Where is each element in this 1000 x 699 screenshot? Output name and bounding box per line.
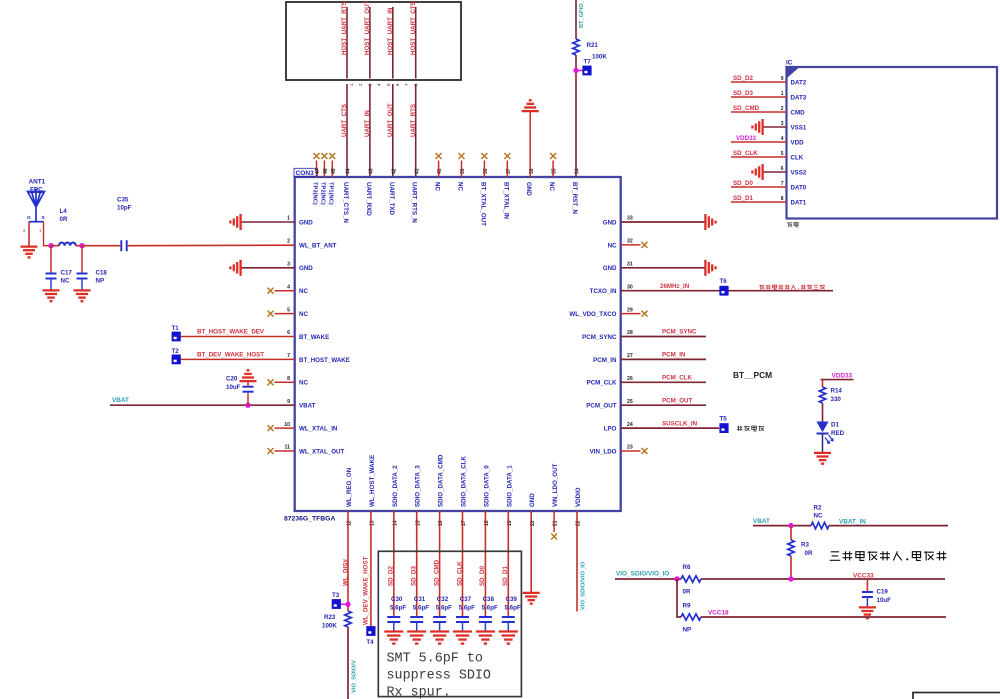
svg-text:NP: NP xyxy=(96,278,105,285)
svg-text:T4: T4 xyxy=(366,639,374,646)
wire SUSCLK_IN net xyxy=(621,427,719,429)
testpoint T1 xyxy=(172,332,181,342)
no-connect x pin 46 xyxy=(321,153,327,159)
svg-text:UART_IN: UART_IN xyxy=(364,110,371,137)
svg-text:UART_RTS: UART_RTS xyxy=(410,104,417,137)
pin 39 stub xyxy=(461,161,463,178)
wire R2 to VBAT_IN xyxy=(829,525,948,527)
svg-text:C20: C20 xyxy=(226,376,238,383)
svg-text:30: 30 xyxy=(627,284,633,290)
svg-text:SDIO_DATA_CLK: SDIO_DATA_CLK xyxy=(461,455,468,507)
wire D1 to ground xyxy=(822,434,824,453)
svg-text:2: 2 xyxy=(23,228,26,233)
capacitor C20 xyxy=(247,393,249,406)
svg-text:UART_OUT: UART_OUT xyxy=(387,103,394,137)
svg-text:UART_CTS_N: UART_CTS_N xyxy=(342,182,349,223)
svg-text:UART_CTS: UART_CTS xyxy=(341,104,348,137)
svg-text:SD_D0: SD_D0 xyxy=(733,180,754,187)
inductor L4 xyxy=(59,243,76,246)
svg-text:PCM_CLK: PCM_CLK xyxy=(587,380,617,387)
svg-text:SUSCLK_IN: SUSCLK_IN xyxy=(662,420,698,427)
svg-text:10uF: 10uF xyxy=(877,597,892,604)
wire net SD_CLK (pin 17 down) xyxy=(462,511,464,617)
ground at C30 xyxy=(384,630,403,632)
wire VBAT rail xyxy=(753,525,811,527)
svg-text:BT_HOST_WAKE: BT_HOST_WAKE xyxy=(299,357,350,364)
testpoint T6 xyxy=(719,286,728,296)
wire UART_OUT from J2 to CON3 pin 42 xyxy=(392,84,394,177)
svg-text:5.6pF: 5.6pF xyxy=(459,605,475,612)
svg-text:TP1(NC): TP1(NC) xyxy=(328,182,334,205)
svg-text:SD_D1: SD_D1 xyxy=(733,195,754,202)
svg-text:BT__PCM: BT__PCM xyxy=(733,370,772,380)
wire BT_RST_N net (pin 34 up) xyxy=(575,55,577,177)
svg-text:WL_DEV_WAKE_HOST: WL_DEV_WAKE_HOST xyxy=(363,556,370,625)
svg-text:SD_D3: SD_D3 xyxy=(411,565,418,586)
svg-text:NC: NC xyxy=(608,242,617,249)
svg-text:1: 1 xyxy=(349,83,354,86)
svg-text:TP2(NC): TP2(NC) xyxy=(320,182,326,205)
svg-text:42: 42 xyxy=(391,168,397,174)
ground at C38 xyxy=(476,630,495,632)
svg-text:BT_WAKE: BT_WAKE xyxy=(299,334,329,341)
node junction VIO/R9 xyxy=(674,576,679,581)
svg-text:5.6pF: 5.6pF xyxy=(390,605,406,612)
ground (left) pin 1 xyxy=(239,214,241,230)
svg-text:4: 4 xyxy=(377,83,382,86)
wire net SD_D0 (pin 18 down) xyxy=(484,511,486,617)
wire VCC33 to C19 xyxy=(866,579,868,592)
pin 10 stub xyxy=(275,427,295,429)
no-connect x pin 32 xyxy=(642,242,648,248)
svg-text:VSS1: VSS1 xyxy=(791,124,807,131)
svg-text:VDD33: VDD33 xyxy=(736,135,757,142)
pin 33 GND wire xyxy=(621,221,705,223)
svg-text:43: 43 xyxy=(369,168,375,174)
svg-text:L4: L4 xyxy=(60,208,68,215)
svg-text:5: 5 xyxy=(287,307,290,313)
svg-text:VIO_SDIO/V: VIO_SDIO/V xyxy=(352,660,358,693)
svg-text:PCM_SYNC: PCM_SYNC xyxy=(582,334,617,341)
svg-text:Rx spur.: Rx spur. xyxy=(387,686,451,699)
svg-text:BT_XTAL_OUT: BT_XTAL_OUT xyxy=(479,182,486,226)
svg-text:S: S xyxy=(42,215,46,221)
svg-text:ANT1: ANT1 xyxy=(29,179,46,186)
svg-text:7: 7 xyxy=(287,353,290,359)
wire net SD_D3 (pin 15 down) xyxy=(416,511,418,617)
svg-text:LPO: LPO xyxy=(604,426,617,433)
ground at D1 xyxy=(814,452,831,454)
svg-text:2: 2 xyxy=(287,239,290,245)
svg-text:HOST_UART_CTS: HOST_UART_CTS xyxy=(410,1,417,55)
svg-text:GND: GND xyxy=(525,182,532,196)
node junction at T7 xyxy=(573,68,578,73)
svg-text:BT_GPIO_IO: BT_GPIO_IO xyxy=(579,0,585,28)
no-connect x pin 39 xyxy=(459,153,465,159)
svg-text:VIN_LDO_OUT: VIN_LDO_OUT xyxy=(552,463,559,507)
no-connect x pin 11 xyxy=(268,448,274,454)
corner mark xyxy=(788,68,799,78)
resistor R21 xyxy=(573,39,579,55)
wire R23 down to VIO rail xyxy=(347,627,349,699)
svg-text:PCM_OUT: PCM_OUT xyxy=(662,397,692,404)
svg-text:10uF: 10uF xyxy=(226,384,241,391)
pin 32 stub xyxy=(621,244,641,246)
pin 29 stub xyxy=(621,313,641,315)
svg-text:9: 9 xyxy=(287,399,290,405)
pin 21 stub xyxy=(553,511,555,532)
svg-text:SDIO_DATA_2: SDIO_DATA_2 xyxy=(392,465,399,507)
wire node B to C35 xyxy=(82,245,120,247)
wire net BT_DEV_WAKE_HOST xyxy=(181,358,295,360)
svg-text:SDIO_DATA_CMD: SDIO_DATA_CMD xyxy=(438,454,445,507)
capacitor C17 xyxy=(50,246,52,274)
svg-text:32: 32 xyxy=(627,239,633,245)
pin 5 stub xyxy=(275,313,295,315)
svg-text:WL_HOST_WAKE: WL_HOST_WAKE xyxy=(369,455,376,507)
svg-text:RED: RED xyxy=(831,430,845,437)
svg-text:R14: R14 xyxy=(831,388,843,395)
pin 46 TP2(NC) stub xyxy=(323,161,325,178)
wire VIO rail left xyxy=(615,578,681,580)
wire VBAT to R3 xyxy=(790,526,792,540)
title block corner xyxy=(913,693,1000,699)
no-connect x pin 29 xyxy=(642,311,648,317)
svg-text:44: 44 xyxy=(346,168,352,174)
svg-text:IC: IC xyxy=(786,60,793,67)
pin 3 GND stub xyxy=(242,267,295,269)
svg-text:SD_CMD: SD_CMD xyxy=(733,105,760,112)
svg-text:24: 24 xyxy=(627,422,633,428)
svg-text:100K: 100K xyxy=(322,623,337,630)
svg-text:31: 31 xyxy=(627,262,633,268)
wire C35 to pin 2 WL_BT_ANT xyxy=(128,244,295,247)
node junction A (ant/L4/C17) xyxy=(48,243,53,248)
svg-text:SDIO_DATA_1: SDIO_DATA_1 xyxy=(506,465,513,507)
svg-text:NC: NC xyxy=(61,278,70,285)
svg-text:HOST_UART_IN: HOST_UART_IN xyxy=(387,7,394,55)
svg-text:46: 46 xyxy=(323,168,329,174)
svg-text:NP: NP xyxy=(683,627,692,634)
svg-text:UART_TXD: UART_TXD xyxy=(388,182,395,216)
svg-text:T1: T1 xyxy=(172,325,180,332)
wire net PCM_IN xyxy=(621,358,706,360)
wire J2 pin to net HOST_UART_CTS xyxy=(415,7,417,79)
pin 31 GND wire xyxy=(621,267,705,269)
wire to T7 xyxy=(576,70,583,72)
svg-text:SD_D0: SD_D0 xyxy=(479,565,486,586)
no-connect x pin 10 xyxy=(268,425,274,431)
svg-text:SMT 5.6pF to: SMT 5.6pF to xyxy=(387,652,483,667)
svg-text:PCM_SYNC: PCM_SYNC xyxy=(662,329,697,336)
wire UART_RTS from J2 to CON3 pin 41 xyxy=(415,84,417,177)
svg-text:T2: T2 xyxy=(172,348,180,355)
svg-text:UART_RTS_N: UART_RTS_N xyxy=(411,182,418,223)
svg-text:PCM_IN: PCM_IN xyxy=(662,352,686,359)
resistor R3 xyxy=(788,540,794,556)
pin 38 stub xyxy=(483,161,485,178)
svg-text:CLK: CLK xyxy=(791,154,804,161)
svg-text:NC: NC xyxy=(457,182,464,191)
no-connect x pin 21 xyxy=(551,534,557,540)
label card socket xyxy=(787,222,792,227)
svg-text:5: 5 xyxy=(386,83,391,86)
annotation: three voltage inputs, selectable xyxy=(830,552,840,560)
svg-text:suppress SDIO: suppress SDIO xyxy=(387,669,491,684)
wire VBAT to pin 9 xyxy=(110,404,295,406)
no-connect x pin 23 xyxy=(642,448,648,454)
svg-text:C38: C38 xyxy=(483,596,495,603)
no-connect x pin 8 xyxy=(268,379,274,385)
svg-text:VBAT: VBAT xyxy=(753,518,770,525)
svg-text:DAT1: DAT1 xyxy=(791,199,807,206)
svg-text:DAT3: DAT3 xyxy=(791,94,807,101)
svg-text:7: 7 xyxy=(404,83,409,86)
svg-text:GND: GND xyxy=(299,219,313,226)
svg-text:BT_HOST_WAKE_DEV: BT_HOST_WAKE_DEV xyxy=(197,329,265,336)
svg-text:C39: C39 xyxy=(506,596,518,603)
wire UART_IN from J2 to CON3 pin 43 xyxy=(369,84,371,177)
ground at C37 xyxy=(453,630,472,632)
ground (right) pin 33 xyxy=(704,214,706,230)
svg-text:26: 26 xyxy=(627,376,633,382)
svg-text:11: 11 xyxy=(285,445,291,451)
pin 23 stub xyxy=(621,450,641,452)
testpoint T4 xyxy=(366,626,375,636)
svg-text:R6: R6 xyxy=(683,564,691,571)
svg-text:SD_CLK: SD_CLK xyxy=(456,561,463,586)
svg-text:28: 28 xyxy=(627,330,633,336)
svg-text:VSS2: VSS2 xyxy=(791,169,807,176)
svg-text:33: 33 xyxy=(627,216,633,222)
svg-text:25: 25 xyxy=(627,399,633,405)
annotation: this pin floating xyxy=(737,426,743,431)
svg-text:5.6pF: 5.6pF xyxy=(482,605,498,612)
wire net SD_CMD (pin 16 down) xyxy=(439,511,441,617)
svg-text:TP3(NC): TP3(NC) xyxy=(312,182,318,205)
svg-text:D1: D1 xyxy=(831,422,839,429)
capacitor C19 xyxy=(862,591,873,593)
no-connect x pin 35 xyxy=(550,153,556,159)
svg-text:WL_REG_ON: WL_REG_ON xyxy=(346,467,353,507)
wire WL_DIS# net (pin 12 down) xyxy=(347,511,349,611)
no-connect x pin 4 xyxy=(268,288,274,294)
svg-text:CMD: CMD xyxy=(791,109,806,116)
svg-text:C18: C18 xyxy=(96,270,108,277)
node junction B (L4/C18/C35) xyxy=(79,243,84,248)
pin 4 stub xyxy=(275,290,295,292)
wire J2 pin to net HOST_UART_IN xyxy=(392,7,394,79)
wire net PCM_CLK xyxy=(621,381,706,383)
connector J2 HOST UART box xyxy=(286,2,461,80)
svg-text:27: 27 xyxy=(627,353,633,359)
ground at C31 xyxy=(407,630,426,632)
svg-text:VDD: VDD xyxy=(791,139,805,146)
pin 1 GND stub xyxy=(242,221,295,223)
wire WL_DEV_WAKE_HOST net (pin 13 down) xyxy=(370,511,372,626)
svg-text:R9: R9 xyxy=(683,603,691,610)
wire R3 to VIO rail xyxy=(790,556,792,579)
pin 11 stub xyxy=(275,450,295,452)
resistor R6 xyxy=(681,576,701,582)
svg-text:WL_BT_ANT: WL_BT_ANT xyxy=(299,242,337,249)
antenna feed bar xyxy=(29,221,44,223)
svg-text:SD_CLK: SD_CLK xyxy=(733,150,758,157)
svg-text:GND: GND xyxy=(603,265,617,272)
ground at C19 xyxy=(859,606,876,608)
svg-text:87236G_TFBGA: 87236G_TFBGA xyxy=(284,516,335,523)
svg-text:PCM_OUT: PCM_OUT xyxy=(586,403,616,410)
wire J2 pin to net HOST_UART_RTS xyxy=(346,7,348,79)
svg-text:10: 10 xyxy=(284,422,290,428)
ground at C17 xyxy=(43,289,60,291)
svg-text:330: 330 xyxy=(831,396,842,403)
svg-text:4: 4 xyxy=(287,284,290,290)
svg-text:NC: NC xyxy=(299,288,308,295)
ground (up) pin 36 xyxy=(522,110,539,112)
svg-text:VIN_LDO: VIN_LDO xyxy=(590,448,617,455)
svg-text:WL_VDO_TXCO: WL_VDO_TXCO xyxy=(569,311,616,318)
svg-text:SDIO_DATA_3: SDIO_DATA_3 xyxy=(415,465,422,507)
svg-text:C17: C17 xyxy=(61,270,73,277)
no-connect x pin 38 xyxy=(481,153,487,159)
ground (up) at C20 xyxy=(240,380,257,382)
svg-text:BT_DEV_WAKE_HOST: BT_DEV_WAKE_HOST xyxy=(197,352,264,359)
svg-text:23: 23 xyxy=(627,445,633,451)
svg-text:0R: 0R xyxy=(60,216,68,223)
svg-text:G: G xyxy=(27,215,31,221)
node junction VBAT/R3 xyxy=(788,523,793,528)
pin 45 TP1(NC) stub xyxy=(331,161,333,178)
svg-text:T7: T7 xyxy=(584,59,592,66)
note box SMT 5.6pF xyxy=(378,551,521,696)
wire 26MHz_IN net xyxy=(621,290,833,292)
ground at C39 xyxy=(499,630,518,632)
svg-text:HOST_UART_RTS: HOST_UART_RTS xyxy=(341,1,348,55)
svg-text:T5: T5 xyxy=(720,416,728,423)
svg-text:VBAT: VBAT xyxy=(112,397,129,404)
svg-text:45: 45 xyxy=(331,168,337,174)
svg-text:GND: GND xyxy=(299,265,313,272)
svg-text:WL_XTAL_IN: WL_XTAL_IN xyxy=(299,426,338,433)
wire net PCM_OUT xyxy=(621,404,706,406)
wire net SD_D1 (pin 19 down) xyxy=(507,511,509,617)
svg-text:HOST_UART_OUT: HOST_UART_OUT xyxy=(364,0,371,55)
svg-text:6: 6 xyxy=(395,83,400,86)
testpoint T2 xyxy=(172,355,181,365)
wire antenna signal leg xyxy=(44,222,52,246)
node junction VIO/R3 xyxy=(788,576,793,581)
capacitor C35 xyxy=(120,240,122,251)
svg-text:NC: NC xyxy=(814,513,823,520)
pin 40 stub xyxy=(438,161,440,178)
svg-text:100K: 100K xyxy=(592,54,607,61)
ground at C32 xyxy=(430,630,449,632)
svg-text:VCC18: VCC18 xyxy=(708,610,729,617)
wire antenna ground leg xyxy=(28,222,30,246)
svg-text:WL_XTAL_OUT: WL_XTAL_OUT xyxy=(299,448,344,455)
svg-text:VDD33: VDD33 xyxy=(832,373,853,380)
svg-text:DAT2: DAT2 xyxy=(791,79,807,86)
wire pin 20 GND down xyxy=(530,511,532,592)
pin 35 stub xyxy=(552,161,554,178)
svg-text:BT_RST_N: BT_RST_N xyxy=(571,182,578,215)
svg-text:5.6pF: 5.6pF xyxy=(436,605,452,612)
testpoint T7 xyxy=(582,66,591,76)
svg-text:1: 1 xyxy=(287,216,290,222)
testpoint T3 xyxy=(332,599,341,609)
svg-text:DAT0: DAT0 xyxy=(791,184,807,191)
wire net BT_HOST_WAKE_DEV xyxy=(181,336,295,338)
no-connect x pin 40 xyxy=(436,153,442,159)
svg-text:C30: C30 xyxy=(391,596,403,603)
svg-text:0R: 0R xyxy=(805,550,813,557)
svg-text:C32: C32 xyxy=(437,596,449,603)
wire T3 to node xyxy=(341,603,348,605)
svg-text:SD_D2: SD_D2 xyxy=(388,565,395,586)
svg-text:6: 6 xyxy=(287,330,290,336)
svg-text:NC: NC xyxy=(299,311,308,318)
resistor R2 xyxy=(811,522,829,528)
svg-text:VIO_SDIO/VIO_IO: VIO_SDIO/VIO_IO xyxy=(616,571,669,578)
no-connect x pin 37 xyxy=(504,153,510,159)
wire R14 to D1 xyxy=(822,403,824,422)
svg-text:R23: R23 xyxy=(324,614,336,621)
svg-text:T3: T3 xyxy=(332,592,340,599)
svg-text:R21: R21 xyxy=(587,42,599,49)
pin 47 TP3(NC) stub xyxy=(316,161,318,178)
resistor R23 xyxy=(345,611,351,627)
wire L4 to node B xyxy=(76,245,82,247)
svg-text:C35: C35 xyxy=(117,197,129,204)
wire net SD_D2 (pin 14 down) xyxy=(393,511,395,617)
ground (left) pin 3 xyxy=(239,260,241,276)
ground at C18 xyxy=(74,289,91,291)
svg-text:C37: C37 xyxy=(460,596,472,603)
testpoint T5 xyxy=(719,423,728,433)
svg-text:PCM_CLK: PCM_CLK xyxy=(662,375,692,382)
svg-text:29: 29 xyxy=(627,307,633,313)
svg-text:VCC33: VCC33 xyxy=(853,573,874,580)
svg-text:R2: R2 xyxy=(814,505,822,512)
antenna ANT1 xyxy=(28,189,45,222)
svg-text:3: 3 xyxy=(287,262,290,268)
capacitor C18 xyxy=(81,246,83,274)
pin 8 stub xyxy=(275,381,295,383)
resistor R14 xyxy=(819,387,825,403)
svg-text:VBAT: VBAT xyxy=(299,403,316,410)
svg-text:C19: C19 xyxy=(877,589,889,596)
svg-text:PCM_IN: PCM_IN xyxy=(593,357,617,364)
ground (left) at SD VSS2 xyxy=(761,164,763,180)
ground (right) pin 31 xyxy=(704,260,706,276)
svg-text:47: 47 xyxy=(315,168,321,174)
svg-text:5.6pF: 5.6pF xyxy=(505,605,521,612)
svg-text:VDDIO: VDDIO xyxy=(575,487,582,507)
no-connect x pin 5 xyxy=(268,311,274,317)
svg-text:SD_D2: SD_D2 xyxy=(733,75,754,82)
svg-text:41: 41 xyxy=(414,168,420,174)
svg-text:0R: 0R xyxy=(683,589,691,596)
wire J2 pin to net HOST_UART_OUT xyxy=(369,7,371,79)
node junction T3/R23 xyxy=(345,602,350,607)
svg-text:R3: R3 xyxy=(801,542,809,549)
svg-text:TCXO_IN: TCXO_IN xyxy=(590,288,617,295)
svg-text:5.6pF: 5.6pF xyxy=(413,605,429,612)
svg-text:NC: NC xyxy=(548,182,555,191)
wire VDD33 to R14 xyxy=(822,380,824,387)
svg-text:UART_RXD: UART_RXD xyxy=(365,182,372,216)
